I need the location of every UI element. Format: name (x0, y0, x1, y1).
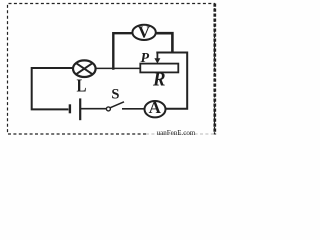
rheostat wiper arrow P (154, 53, 160, 64)
svg-text:A: A (149, 98, 162, 117)
wire: battery to switch (81, 108, 106, 110)
wire: wiper connector, right rail and lead to ammeter (156, 53, 187, 109)
battery (70, 98, 80, 120)
lamp L (73, 60, 96, 77)
ammeter A1 body (145, 101, 166, 117)
svg-text:P: P (141, 51, 150, 66)
wire: switch to ammeter (122, 108, 145, 110)
switch S (106, 102, 124, 111)
svg-text:L: L (77, 76, 87, 96)
svg-text:S: S (111, 87, 119, 103)
svg-text:V: V (138, 23, 151, 42)
resistor R (rheostat body) (140, 64, 178, 73)
wire: voltmeter right lead down to wiper node (156, 33, 173, 52)
wire: left rail from lamp wire down to battery wire (32, 68, 73, 109)
svg-text:R: R (152, 70, 165, 91)
wire: lamp to rheostat left terminal (96, 67, 141, 69)
svg-text:uanFenE.com: uanFenE.com (157, 129, 196, 137)
voltmeter V1 body (132, 25, 155, 40)
wire: voltmeter left lead down to lamp-rheostat junction (113, 33, 132, 70)
